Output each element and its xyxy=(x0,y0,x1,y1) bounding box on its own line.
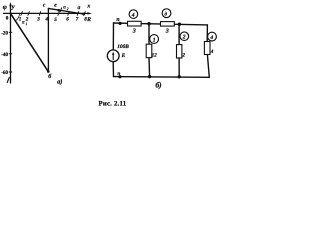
branch 1 wire upper xyxy=(148,24,150,45)
x tick marks (slanted) xyxy=(21,12,85,16)
svg-text:а): а) xyxy=(57,78,62,85)
svg-text:4: 4 xyxy=(131,13,135,19)
resistor box 4 Ohm vertical xyxy=(204,42,210,55)
svg-text:α: α xyxy=(22,20,25,26)
stray mark at axis bottom xyxy=(7,78,9,83)
svg-text:3: 3 xyxy=(165,29,169,35)
svg-text:2: 2 xyxy=(181,52,185,58)
y-axis phi xyxy=(10,4,12,83)
point a dot xyxy=(82,13,85,16)
angle alpha1 arc xyxy=(16,13,20,20)
svg-text:3: 3 xyxy=(36,17,40,23)
svg-text:1: 1 xyxy=(153,38,156,44)
svg-text:E: E xyxy=(121,53,126,59)
resistor box 12 Ohm vertical xyxy=(146,44,152,58)
top rail wire xyxy=(114,23,208,25)
svg-text:д: д xyxy=(164,12,167,18)
circled 4 right xyxy=(208,32,217,41)
y tick labels xyxy=(1,30,8,76)
x-axis R xyxy=(4,12,90,14)
svg-text:е: е xyxy=(54,3,57,9)
svg-text:φ: φ xyxy=(3,3,7,11)
svg-text:4: 4 xyxy=(210,49,214,55)
svg-text:а: а xyxy=(78,5,81,11)
resistor box 2 Ohm vertical xyxy=(177,45,182,58)
junction dot node 2 xyxy=(178,23,181,26)
svg-text:0: 0 xyxy=(6,16,9,22)
svg-text:4: 4 xyxy=(209,35,213,41)
bottom rail wire xyxy=(114,76,210,79)
junction dot bottom-left xyxy=(118,75,121,78)
sloped line c-e-a xyxy=(48,8,83,14)
junction dot node 1 xyxy=(147,22,150,25)
svg-text:-20: -20 xyxy=(1,30,8,36)
right edge wire upper xyxy=(206,25,208,42)
diagonal line 0-b xyxy=(11,13,49,71)
circled 1 xyxy=(150,35,159,44)
circled d xyxy=(162,9,171,18)
svg-text:6: 6 xyxy=(66,17,69,23)
junction dot bottom 2 xyxy=(178,75,181,78)
y tick marks xyxy=(9,32,12,72)
svg-text:α: α xyxy=(63,5,66,11)
svg-text:-60: -60 xyxy=(1,70,8,76)
point b dot xyxy=(47,70,50,73)
left edge wire upper xyxy=(112,23,114,50)
branch 2 wire lower xyxy=(178,58,180,77)
svg-text:5: 5 xyxy=(54,17,57,23)
svg-text:2: 2 xyxy=(67,7,69,11)
branch 2 wire upper xyxy=(178,24,180,44)
tick across sloped line xyxy=(60,8,62,12)
circled 4 xyxy=(129,10,138,19)
svg-text:12: 12 xyxy=(152,52,158,58)
left edge wire lower xyxy=(112,62,114,77)
svg-text:у: у xyxy=(11,4,15,11)
svg-text:3: 3 xyxy=(132,29,136,35)
svg-text:Рис. 2.11: Рис. 2.11 xyxy=(99,101,127,107)
svg-text:б: б xyxy=(48,73,52,80)
point e dot xyxy=(57,9,60,12)
svg-text:R: R xyxy=(86,17,91,23)
svg-text:с: с xyxy=(43,3,46,9)
circled 2 xyxy=(180,32,189,41)
svg-text:-40: -40 xyxy=(1,52,8,58)
svg-text:7: 7 xyxy=(76,17,79,23)
junction dot top-left xyxy=(119,22,122,25)
svg-text:1: 1 xyxy=(26,22,28,26)
EMF source circle xyxy=(107,50,119,62)
resistor box horizontal 1 xyxy=(128,21,142,26)
branch 1 wire lower xyxy=(148,58,151,77)
svg-text:2: 2 xyxy=(182,35,186,41)
right edge wire lower xyxy=(207,55,209,78)
resistor box horizontal 2 xyxy=(161,22,175,27)
EMF arrow inside xyxy=(112,54,114,60)
svg-text:100В: 100В xyxy=(117,44,129,50)
x tick numbers 1-8 xyxy=(19,17,87,23)
svg-text:x: x xyxy=(86,4,90,10)
junction dot bottom 1 xyxy=(148,75,151,78)
vertical jump line b-c xyxy=(47,8,49,71)
svg-text:б): б) xyxy=(155,80,162,89)
